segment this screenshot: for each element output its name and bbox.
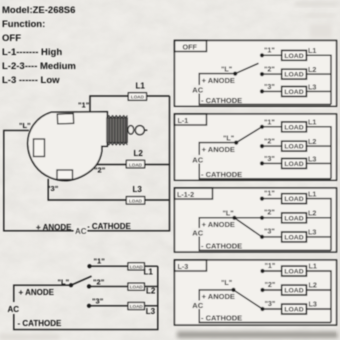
svg-text:AC: AC [8, 305, 20, 314]
svg-text:"2": "2" [265, 280, 276, 289]
svg-text:"1": "1" [94, 257, 106, 266]
svg-text:L-3: L-3 [178, 262, 189, 271]
svg-text:L2: L2 [309, 281, 317, 290]
svg-text:L1: L1 [308, 118, 316, 127]
svg-text:LOAD: LOAD [284, 161, 303, 168]
svg-text:L1: L1 [144, 267, 154, 276]
svg-text:"3": "3" [92, 297, 104, 306]
svg-text:"1": "1" [265, 261, 276, 270]
svg-text:LOAD: LOAD [284, 53, 303, 60]
svg-text:"3": "3" [264, 227, 275, 236]
svg-text:LOAD: LOAD [131, 95, 145, 100]
svg-text:L3: L3 [308, 83, 316, 92]
svg-text:OFF: OFF [183, 43, 198, 52]
svg-text:L3: L3 [309, 300, 317, 309]
svg-text:L2: L2 [308, 137, 316, 146]
svg-text:AC: AC [192, 155, 203, 164]
svg-text:+ ANODE: + ANODE [202, 76, 235, 85]
svg-text:AC: AC [192, 86, 203, 95]
svg-text:LOAD: LOAD [284, 288, 303, 295]
svg-text:"1": "1" [78, 101, 90, 110]
svg-text:LOAD: LOAD [284, 72, 303, 79]
svg-text:L-2-3---- Medium: L-2-3---- Medium [2, 61, 76, 72]
svg-text:"1": "1" [264, 189, 275, 198]
svg-text:LOAD: LOAD [284, 196, 303, 203]
svg-text:L2: L2 [134, 149, 144, 158]
svg-text:"L": "L" [223, 208, 234, 217]
svg-text:LOAD: LOAD [284, 269, 303, 276]
svg-text:- CATHODE: - CATHODE [87, 222, 132, 231]
svg-text:LOAD: LOAD [284, 234, 303, 241]
svg-text:"1": "1" [264, 46, 275, 55]
svg-text:"3": "3" [47, 184, 59, 193]
svg-text:LOAD: LOAD [284, 307, 303, 314]
svg-text:AC: AC [75, 227, 87, 236]
svg-text:Function:: Function: [2, 19, 45, 30]
svg-text:- CATHODE: - CATHODE [201, 242, 242, 251]
svg-text:"2": "2" [264, 137, 275, 146]
svg-text:LOAD: LOAD [129, 199, 143, 204]
svg-text:"2": "2" [93, 278, 105, 287]
svg-text:+ ANODE: + ANODE [202, 145, 235, 154]
svg-text:L3: L3 [146, 307, 156, 316]
svg-text:"2": "2" [264, 208, 275, 217]
svg-text:+ ANODE: + ANODE [19, 288, 55, 297]
svg-text:- CATHODE: - CATHODE [201, 314, 242, 323]
svg-text:"3": "3" [264, 154, 275, 163]
svg-text:"3": "3" [264, 82, 275, 91]
svg-text:L-1------- High: L-1------- High [2, 47, 62, 58]
svg-text:LOAD: LOAD [129, 162, 143, 167]
svg-text:"L": "L" [19, 121, 31, 130]
svg-text:"L": "L" [58, 278, 70, 287]
svg-text:- CATHODE: - CATHODE [201, 96, 242, 105]
svg-text:"L": "L" [221, 278, 232, 287]
svg-text:+ ANODE: + ANODE [36, 223, 72, 232]
svg-text:- CATHODE: - CATHODE [18, 319, 63, 328]
svg-text:L2: L2 [308, 209, 316, 218]
svg-text:"1": "1" [264, 118, 275, 127]
svg-text:LOAD: LOAD [130, 264, 144, 269]
svg-text:LOAD: LOAD [284, 124, 303, 131]
svg-text:LOAD: LOAD [284, 144, 303, 151]
svg-text:L2: L2 [308, 65, 316, 74]
svg-text:L-3 ------ Low: L-3 ------ Low [2, 75, 60, 86]
svg-text:L-1-2: L-1-2 [177, 190, 194, 199]
svg-text:"L": "L" [223, 134, 234, 143]
svg-text:L1: L1 [308, 46, 316, 55]
svg-text:"L": "L" [221, 65, 232, 74]
svg-text:AC: AC [192, 228, 203, 237]
svg-text:- CATHODE: - CATHODE [201, 170, 242, 179]
svg-text:+ ANODE: + ANODE [202, 292, 235, 301]
svg-text:"2": "2" [94, 166, 106, 175]
svg-text:AC: AC [192, 301, 203, 310]
svg-text:L1: L1 [309, 262, 317, 271]
svg-text:L1: L1 [136, 82, 146, 91]
svg-text:"3": "3" [265, 299, 276, 308]
svg-text:L1: L1 [308, 190, 316, 199]
svg-text:L2: L2 [146, 287, 156, 296]
svg-text:L3: L3 [133, 185, 143, 194]
svg-text:+ ANODE: + ANODE [202, 220, 235, 229]
svg-text:LOAD: LOAD [284, 215, 303, 222]
svg-text:LOAD: LOAD [130, 304, 144, 309]
svg-text:L3: L3 [308, 228, 316, 237]
svg-text:L-1: L-1 [178, 116, 189, 125]
svg-text:L3: L3 [308, 155, 316, 164]
svg-text:LOAD: LOAD [284, 89, 303, 96]
svg-text:Model:ZE-268S6: Model:ZE-268S6 [2, 5, 75, 16]
svg-text:LOAD: LOAD [130, 285, 144, 290]
svg-text:OFF: OFF [2, 33, 21, 44]
svg-text:"2": "2" [264, 65, 275, 74]
